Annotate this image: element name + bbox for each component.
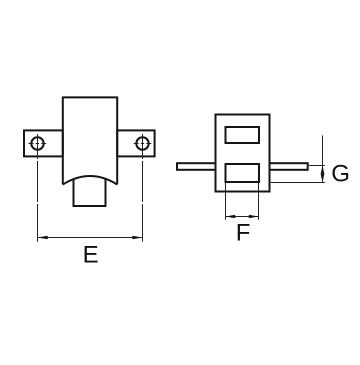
dimension F line [226,216,258,218]
right hole horizontal centerline [134,143,152,145]
left hole vertical centerline / E extension line [37,134,39,242]
svg-text:F: F [236,220,251,247]
front view lower boss rectangle [74,178,106,206]
G lower extension line [271,182,325,184]
right hole vertical centerline / E extension line [142,134,144,242]
dimension G vertical line [322,136,324,183]
right terminal shaft [270,163,308,170]
right mounting tab [117,130,154,156]
left terminal shaft [177,163,216,170]
dimension G up arrow [321,166,325,174]
F left extension line [225,183,227,220]
left mounting tab [24,130,63,156]
dimension E right arrow [132,236,142,239]
F right extension line [258,183,260,220]
left hole circle [31,137,43,149]
dimension F left arrow [226,215,236,218]
side view upper window [226,127,260,143]
left hole horizontal centerline [29,143,47,145]
front view bottom arc [63,176,117,185]
dimension G down arrow [321,174,325,182]
dimension F right arrow [249,215,259,218]
dimension E left arrow [38,236,48,239]
right hole circle [136,137,148,149]
side view lower window [226,164,260,182]
svg-text:G: G [331,161,350,188]
side view body outline [216,115,270,192]
G upper extension line [309,165,325,167]
front view body outline [63,97,117,184]
dimension E line [38,237,142,239]
svg-text:E: E [83,242,99,269]
